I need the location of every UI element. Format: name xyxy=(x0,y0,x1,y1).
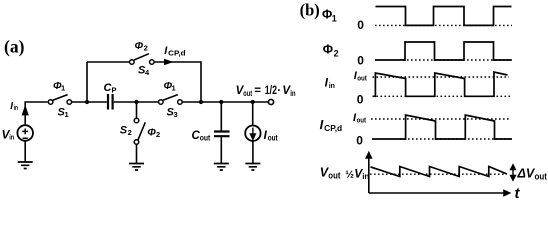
node C junction (top branch) xyxy=(199,100,203,104)
svg-text:P: P xyxy=(112,86,117,95)
node E junction (Iout branch) xyxy=(251,100,255,104)
wire top branch right segment xyxy=(154,62,201,102)
wire S2 to ground xyxy=(136,144,138,163)
waveform Iin xyxy=(373,72,508,96)
wire top branch left segment xyxy=(87,61,129,63)
terminal Vout xyxy=(268,99,273,104)
svg-text:(a): (a) xyxy=(4,37,25,57)
svg-text:in: in xyxy=(329,83,335,90)
svg-text:2: 2 xyxy=(334,48,339,58)
svg-text:Φ: Φ xyxy=(147,126,156,138)
svg-text:out: out xyxy=(328,171,340,181)
wire output rail xyxy=(182,101,268,103)
svg-text:0: 0 xyxy=(357,18,364,32)
node D junction (Cout branch) xyxy=(219,100,223,104)
ground (S2) xyxy=(129,164,144,171)
dotted zero line (ICP,d row) xyxy=(400,138,512,140)
switch S1 xyxy=(48,100,53,105)
wire Cout to ground xyxy=(220,137,222,163)
capacitor Cout xyxy=(214,132,230,137)
wire Vin to ground xyxy=(24,141,26,162)
svg-text:0: 0 xyxy=(357,53,364,67)
switch S2 xyxy=(134,118,139,123)
svg-text:1: 1 xyxy=(172,84,176,93)
wire riser to top branch xyxy=(86,62,88,102)
axis horizontal with t arrow xyxy=(369,191,510,196)
capacitor CP xyxy=(108,94,113,110)
switch S4 xyxy=(130,60,135,65)
wire Cout branch xyxy=(220,102,222,131)
wire Vin branch up to rail corner xyxy=(25,102,47,125)
current source Iout xyxy=(245,126,260,141)
dotted zero line (Iin row) xyxy=(373,95,511,97)
svg-text:in: in xyxy=(14,105,18,112)
wire Iout branch xyxy=(252,102,254,126)
waveform Vout sawtooth xyxy=(371,167,508,177)
svg-text:Φ: Φ xyxy=(323,42,333,56)
dotted half Vin level line xyxy=(370,173,506,175)
axis vertical (Vout row) xyxy=(366,153,371,193)
ground (Vin) xyxy=(18,162,33,169)
waveform Phi2 xyxy=(375,42,511,60)
wire Iout to ground xyxy=(252,141,254,164)
waveform Phi1 xyxy=(376,7,512,26)
svg-text:0: 0 xyxy=(357,93,364,107)
svg-text:1: 1 xyxy=(61,84,65,93)
svg-text:in: in xyxy=(290,89,295,98)
svg-text:out: out xyxy=(357,76,367,83)
svg-text:=: = xyxy=(254,85,261,97)
svg-text:CP,d: CP,d xyxy=(324,124,342,133)
svg-text:2: 2 xyxy=(144,43,148,52)
wire S1 to capacitor CP (with junction riser) xyxy=(72,101,107,103)
node A junction xyxy=(85,100,89,104)
delta Vout double arrow xyxy=(511,165,516,180)
svg-text:Φ: Φ xyxy=(135,40,144,52)
svg-text:1: 1 xyxy=(332,14,337,24)
svg-text:S: S xyxy=(120,125,128,137)
ground (Iout) xyxy=(245,164,260,171)
svg-text:out: out xyxy=(535,171,547,181)
dotted zero line (Phi1 row) xyxy=(375,24,512,26)
svg-text:1/2: 1/2 xyxy=(265,85,277,97)
svg-text:Φ: Φ xyxy=(322,8,332,22)
svg-text:0: 0 xyxy=(356,133,363,147)
svg-text:CP,d: CP,d xyxy=(168,49,186,58)
svg-text:3: 3 xyxy=(174,110,178,119)
svg-text:2: 2 xyxy=(156,130,160,139)
svg-text:out: out xyxy=(200,134,211,143)
svg-text:2: 2 xyxy=(128,128,132,137)
svg-text:in: in xyxy=(9,132,14,141)
wire CP to S3 xyxy=(114,101,159,103)
svg-text:1: 1 xyxy=(65,110,69,119)
svg-text:I: I xyxy=(320,117,324,132)
svg-text:out: out xyxy=(243,89,252,98)
dotted zero line (Phi2 row) xyxy=(403,59,512,61)
dotted Iout level line (ICP,d row) xyxy=(371,118,511,120)
svg-text:(b): (b) xyxy=(300,1,320,20)
switch S3 xyxy=(159,100,164,105)
dotted Iout level line (Iin row) xyxy=(373,76,510,78)
node B junction (S2 branch) xyxy=(134,100,138,104)
svg-text:·: · xyxy=(277,85,281,97)
current arrow Iin xyxy=(22,106,28,115)
svg-text:out: out xyxy=(357,118,367,125)
waveform ICP,d xyxy=(372,115,512,139)
svg-text:out: out xyxy=(268,133,278,143)
voltage source Vin xyxy=(17,125,33,141)
ground (Cout) xyxy=(214,164,229,171)
current arrow ICP,d xyxy=(165,59,173,64)
svg-text:ΔV: ΔV xyxy=(517,167,536,181)
wire node B down to S2 xyxy=(136,102,138,118)
svg-text:½: ½ xyxy=(345,168,354,180)
